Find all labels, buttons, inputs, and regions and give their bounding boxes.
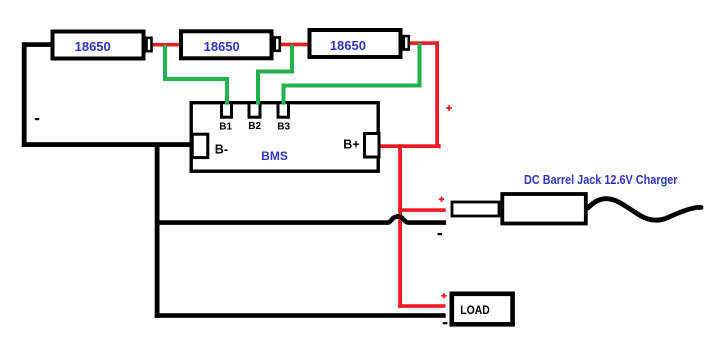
wire red positive vertical bus [398,144,402,307]
terminal B- [192,134,208,157]
wire negative to load [155,313,446,318]
charger barrel jack body [502,194,586,224]
wire left vertical bus [22,42,27,147]
load box [452,294,513,325]
wire red battery2+ to battery3- [279,43,311,47]
wire red right vertical [435,41,439,147]
battery BT1 18650 [53,32,152,59]
node minus at load [443,322,448,324]
svg-text:B+: B+ [343,137,359,151]
wire red battery1+ to battery2- [150,43,182,47]
wire negative to charger with hop over red [157,216,446,222]
wire green balance B3 [284,43,420,105]
wire green stub into pin B3 [282,99,286,105]
battery BT3 18650 [310,30,409,57]
svg-text:LOAD: LOAD [460,303,490,317]
wire green balance B2 [258,45,292,105]
wire middle vertical negative bus [155,144,160,318]
pin B2 [249,103,260,118]
terminal B+ [365,134,380,158]
battery BT2 18650 [181,31,280,58]
terminal label B+ [343,137,359,151]
wire battery1 negative to left bus [22,42,54,47]
svg-text:B-: B- [215,143,228,157]
wire green stub into pin B2 [256,99,260,105]
wire red to load plus [398,304,445,308]
pin label B3 [277,122,290,133]
charger cable [588,199,701,220]
svg-text:B2: B2 [248,121,261,132]
svg-text:18650: 18650 [204,39,240,54]
wire red to charger plus [398,208,446,212]
wire red battery3+ right [408,41,439,45]
wire green stub into pin B1 [225,99,229,105]
svg-text:B3: B3 [277,122,290,133]
svg-text:18650: 18650 [75,39,111,54]
node minus label left bus [35,118,39,120]
label DC Barrel Jack 12.6V Charger [524,173,678,187]
node plus at charger [439,197,444,202]
svg-text:BMS: BMS [261,149,288,163]
pin label B2 [248,121,261,132]
BMS module U1 [191,103,378,172]
node plus near B+ junction [446,105,452,111]
pin B3 [278,103,289,118]
wire red B+ to junction [380,144,441,149]
svg-text:DC Barrel Jack 12.6V Charger: DC Barrel Jack 12.6V Charger [524,173,678,187]
terminal label B- [215,143,228,157]
pin B1 [222,103,232,118]
wire bus to BMS B- [22,142,191,147]
node minus at charger [438,233,443,235]
svg-text:18650: 18650 [330,38,366,53]
wire green balance B1 [165,45,227,105]
pin label B1 [219,122,232,133]
label LOAD [460,303,490,317]
svg-text:B1: B1 [219,122,232,133]
node plus at load [441,293,446,298]
charger barrel jack tip [452,202,499,216]
label BMS [261,149,288,163]
